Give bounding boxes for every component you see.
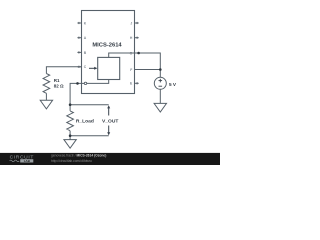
junction dot R_Load bottom node	[69, 134, 72, 137]
svg-text:MICS-2614: MICS-2614	[92, 42, 122, 48]
wire R_Load bottom to ground node	[69, 131, 71, 140]
junction dot F/G node	[159, 68, 162, 71]
voltage source V1	[154, 77, 166, 89]
svg-text:LAB: LAB	[24, 159, 31, 163]
wire node to V_OUT probe bottom	[70, 135, 109, 137]
wire R1 bottom to ground	[45, 93, 47, 100]
wire pin C to R1	[46, 67, 81, 74]
ground GND1	[40, 100, 52, 109]
junction dot R_Load top node	[69, 103, 72, 106]
svg-text:5 V: 5 V	[169, 82, 177, 87]
pin C stub	[77, 66, 81, 68]
pin A stub	[77, 37, 81, 39]
wire pin F to V1 node	[135, 69, 161, 71]
svg-text:genovese.fractr / MICS-2614 (O: genovese.fractr / MICS-2614 (Ozone)	[51, 154, 106, 158]
svg-text:http://circuitlab.com/c6fdwru: http://circuitlab.com/c6fdwru	[51, 159, 92, 163]
pin E stub	[135, 82, 139, 84]
junction dot G wire	[137, 52, 140, 55]
svg-text:V_OUT: V_OUT	[102, 118, 118, 124]
CircuitLab logo squiggle	[10, 160, 20, 162]
svg-text:R_Load: R_Load	[76, 118, 94, 124]
svg-text:F: F	[130, 68, 132, 72]
pin H stub	[135, 37, 139, 39]
wire node to V_OUT probe top	[70, 104, 109, 106]
ground GND3	[154, 103, 166, 112]
V_OUT probe bracket	[108, 108, 110, 134]
CircuitLab logo LAB block	[20, 159, 33, 162]
wire sensor square bottom to node D and down	[70, 80, 109, 111]
sensor element inner square	[98, 57, 120, 79]
pin D open-circle terminal	[84, 82, 86, 84]
svg-text:R1: R1	[54, 78, 60, 83]
junction dot D node	[76, 82, 79, 85]
pin B stub	[77, 51, 81, 53]
svg-text:J: J	[130, 21, 132, 25]
wire sensor square top to pin G and to V1	[109, 53, 161, 77]
ground GND2	[64, 140, 76, 149]
wire V1 bottom to ground	[159, 89, 161, 103]
svg-text:82 Ω: 82 Ω	[54, 84, 64, 89]
IC U1 MICS-2614 package body	[82, 11, 135, 94]
pin K stub	[77, 22, 81, 24]
heater arrow into sensor square	[89, 67, 95, 69]
resistor R_Load zigzag	[67, 111, 74, 131]
resistor R1 zigzag	[43, 74, 50, 94]
footer bar	[0, 153, 220, 165]
pin J stub	[135, 22, 139, 24]
